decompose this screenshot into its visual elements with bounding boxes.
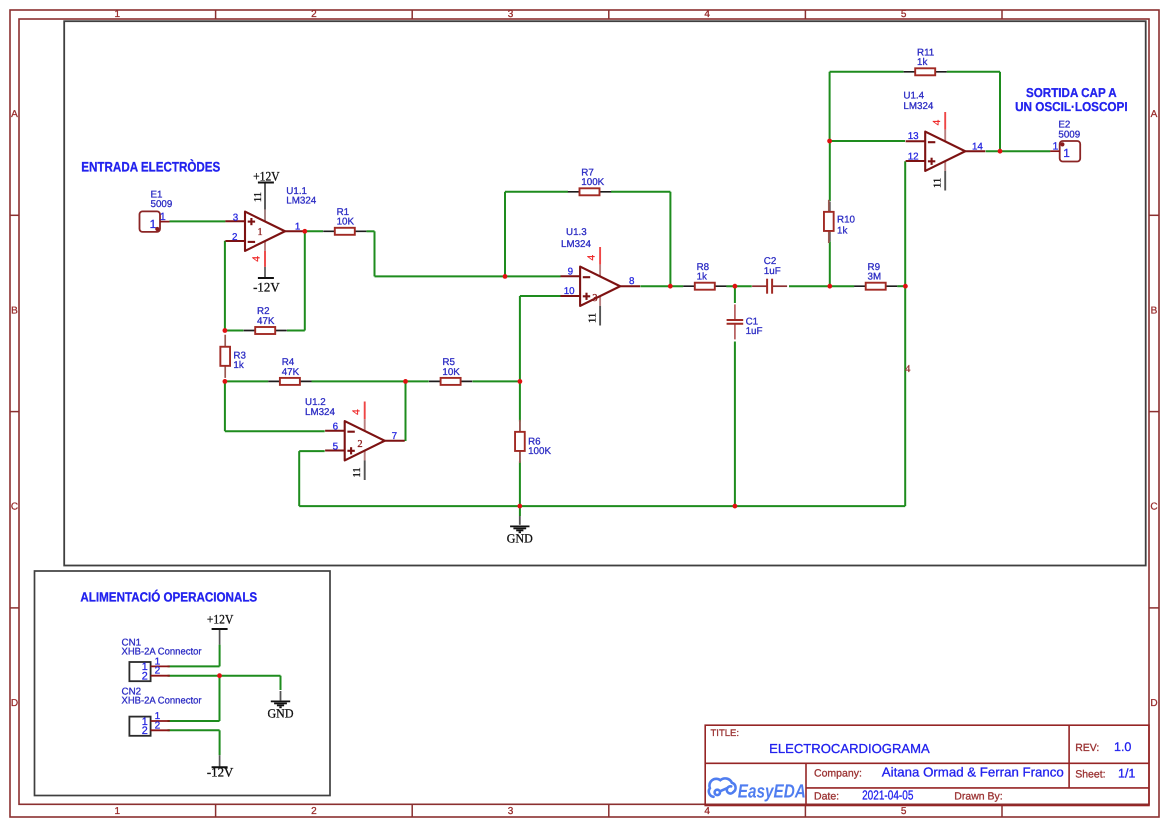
svg-text:2: 2 (155, 666, 161, 677)
svg-text:13: 13 (908, 131, 919, 142)
svg-text:1k: 1k (837, 225, 847, 236)
svg-text:10: 10 (564, 286, 575, 297)
svg-text:4: 4 (586, 254, 598, 260)
svg-text:100K: 100K (528, 446, 551, 457)
svg-text:9: 9 (568, 266, 573, 277)
svg-text:7: 7 (392, 431, 397, 442)
svg-text:1: 1 (150, 217, 157, 231)
svg-text:B: B (11, 305, 18, 316)
svg-text:4: 4 (704, 806, 710, 817)
svg-text:11: 11 (932, 178, 943, 188)
svg-text:UN OSCIL·LOSCOPI: UN OSCIL·LOSCOPI (1015, 99, 1128, 114)
svg-text:2: 2 (311, 9, 317, 20)
svg-text:47K: 47K (282, 367, 300, 378)
svg-text:5009: 5009 (1058, 129, 1080, 140)
svg-text:1k: 1k (233, 360, 243, 371)
svg-text:1: 1 (295, 221, 300, 232)
svg-text:LM324: LM324 (286, 195, 317, 206)
svg-text:4: 4 (704, 9, 710, 20)
svg-text:1uF: 1uF (746, 326, 763, 337)
svg-text:5: 5 (333, 441, 339, 452)
svg-text:5009: 5009 (151, 199, 173, 210)
svg-text:A: A (11, 109, 18, 120)
svg-text:2: 2 (311, 806, 317, 817)
svg-text:+12V: +12V (253, 168, 280, 183)
svg-text:SORTIDA CAP A: SORTIDA CAP A (1026, 85, 1117, 100)
svg-text:REV:: REV: (1075, 742, 1099, 754)
svg-text:U1.4: U1.4 (903, 90, 924, 101)
svg-text:11: 11 (352, 467, 363, 477)
svg-text:B: B (1151, 305, 1158, 316)
svg-text:-12V: -12V (207, 765, 234, 780)
svg-text:47K: 47K (257, 316, 275, 327)
svg-text:D: D (1150, 698, 1157, 709)
svg-text:8: 8 (629, 276, 635, 287)
svg-text:ELECTROCARDIOGRAMA: ELECTROCARDIOGRAMA (769, 741, 930, 756)
svg-text:6: 6 (333, 421, 339, 432)
svg-text:Date:: Date: (814, 790, 839, 802)
svg-text:3: 3 (592, 293, 597, 304)
svg-text:ENTRADA ELECTRÒDES: ENTRADA ELECTRÒDES (81, 159, 220, 175)
svg-text:EasyEDA: EasyEDA (738, 782, 806, 803)
svg-text:2: 2 (142, 671, 148, 683)
svg-text:3: 3 (508, 9, 514, 20)
svg-text:1: 1 (257, 227, 262, 238)
svg-text:10K: 10K (442, 367, 460, 378)
svg-text:3: 3 (233, 212, 239, 223)
svg-text:GND: GND (507, 531, 533, 545)
svg-text:Company:: Company: (814, 767, 862, 779)
svg-text:C: C (1150, 502, 1157, 513)
svg-text:5: 5 (901, 806, 907, 817)
svg-text:1: 1 (160, 211, 166, 223)
svg-text:4: 4 (251, 256, 263, 262)
svg-text:GND: GND (268, 706, 294, 720)
svg-text:2: 2 (142, 725, 148, 737)
svg-text:C: C (11, 502, 18, 513)
svg-text:XHB-2A Connector: XHB-2A Connector (122, 646, 203, 657)
svg-text:LM324: LM324 (305, 407, 336, 418)
svg-text:+12V: +12V (207, 611, 234, 626)
svg-text:A: A (1151, 109, 1158, 120)
svg-text:1k: 1k (917, 57, 927, 68)
svg-text:1k: 1k (697, 272, 707, 283)
svg-text:ALIMENTACIÓ OPERACIONALS: ALIMENTACIÓ OPERACIONALS (80, 589, 257, 604)
svg-text:1: 1 (1052, 140, 1058, 152)
svg-text:LM324: LM324 (903, 101, 934, 112)
svg-text:Aitana Ormad & Ferran Franco: Aitana Ormad & Ferran Franco (882, 764, 1064, 779)
svg-text:Drawn By:: Drawn By: (954, 790, 1002, 802)
svg-text:11: 11 (253, 192, 264, 202)
svg-text:2: 2 (357, 439, 362, 450)
svg-text:2: 2 (155, 720, 161, 731)
svg-text:11: 11 (587, 313, 598, 323)
svg-text:1: 1 (115, 9, 121, 20)
svg-text:1: 1 (115, 806, 121, 817)
svg-text:R10: R10 (837, 214, 856, 225)
svg-text:2: 2 (232, 232, 237, 243)
svg-text:4: 4 (905, 364, 911, 375)
svg-text:10K: 10K (337, 217, 355, 228)
svg-text:U1.3: U1.3 (566, 227, 587, 238)
svg-text:LM324: LM324 (561, 239, 592, 250)
svg-text:1/1: 1/1 (1118, 767, 1135, 781)
svg-text:4: 4 (931, 119, 943, 125)
svg-text:XHB-2A Connector: XHB-2A Connector (122, 696, 203, 707)
svg-text:12: 12 (908, 151, 919, 162)
svg-text:3M: 3M (868, 272, 882, 283)
svg-text:14: 14 (972, 141, 983, 152)
svg-text:1: 1 (1063, 146, 1070, 160)
svg-text:5: 5 (901, 9, 907, 20)
svg-text:D: D (11, 698, 18, 709)
svg-text:4: 4 (350, 409, 362, 415)
svg-text:1uF: 1uF (764, 266, 781, 277)
svg-text:100K: 100K (581, 177, 604, 188)
svg-text:-12V: -12V (253, 280, 280, 295)
svg-text:2021-04-05: 2021-04-05 (862, 787, 913, 802)
svg-text:3: 3 (508, 806, 514, 817)
svg-text:Sheet:: Sheet: (1075, 769, 1105, 781)
svg-text:TITLE:: TITLE: (711, 728, 740, 739)
svg-text:1.0: 1.0 (1114, 740, 1131, 754)
